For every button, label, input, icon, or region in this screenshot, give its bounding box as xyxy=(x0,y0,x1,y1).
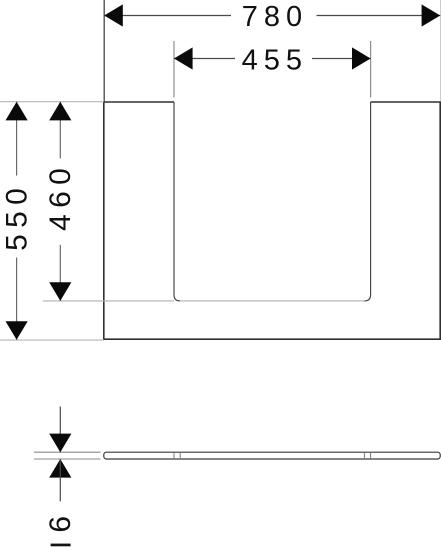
svg-text:455: 455 xyxy=(242,44,308,76)
dimension line 16 lower xyxy=(59,459,61,501)
dimension line 550 xyxy=(16,102,18,176)
arrow 780 left xyxy=(104,4,123,26)
dimension line 16 upper xyxy=(59,407,61,453)
notch wall tick right b xyxy=(370,452,372,459)
arrow 550 bottom xyxy=(6,321,28,340)
arrow 455 right xyxy=(352,47,371,69)
svg-text:780: 780 xyxy=(242,1,308,33)
extension line bottom (550) xyxy=(0,339,104,341)
label 16 : digit 1 (stem, clipped at image bottom) xyxy=(51,544,71,547)
arrow 16 up xyxy=(49,459,71,478)
svg-text:460: 460 xyxy=(44,162,77,231)
arrow 455 left xyxy=(174,47,193,69)
arrow 780 right xyxy=(422,4,441,26)
arrow 550 top xyxy=(6,102,28,121)
arrow 460 bottom xyxy=(49,282,71,301)
extension line top (550/460) xyxy=(0,101,104,103)
arrow 16 down xyxy=(49,434,71,453)
extension line left (780) xyxy=(103,0,105,102)
extension line bottom (460, at notch bottom) xyxy=(43,300,174,302)
dimension line 780 xyxy=(104,15,231,17)
extension line top (16) xyxy=(34,451,101,453)
extension line left (455) xyxy=(173,41,175,98)
notch bottom edge xyxy=(180,300,364,302)
notch wall tick left b xyxy=(179,452,181,459)
extension line bottom (16) xyxy=(34,458,101,460)
svg-text:6: 6 xyxy=(44,516,77,533)
dimension line 455 xyxy=(174,58,235,60)
svg-text:550: 550 xyxy=(1,182,34,251)
extension line right (780) xyxy=(440,0,441,102)
extension line right (455) xyxy=(370,41,372,98)
plate profile (side view) xyxy=(104,452,440,459)
dimension line 460 xyxy=(59,102,61,159)
notch left wall (recess cut-out) xyxy=(174,102,180,301)
notch right wall xyxy=(364,102,370,301)
arrow 460 top xyxy=(49,102,71,121)
notch wall tick right a xyxy=(363,452,365,459)
body outline (front view, console plate) xyxy=(104,102,440,339)
notch wall tick left a xyxy=(173,452,175,459)
